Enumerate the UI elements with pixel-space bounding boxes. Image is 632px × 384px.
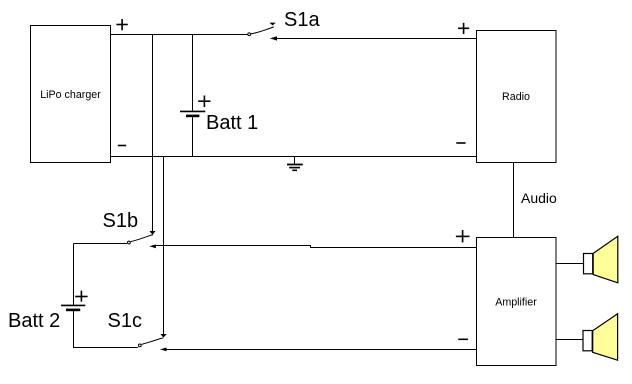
Batt 2 positive plate <box>61 304 85 306</box>
plus label (Batt 2 +) <box>75 291 87 302</box>
connector arrow into radio + wire (points left) <box>270 36 277 40</box>
wire: bottom bus LiPo - to Radio - <box>111 156 477 158</box>
S1c pivot contact circle <box>138 344 141 347</box>
Batt 1 positive plate <box>180 110 205 112</box>
svg-text:Radio: Radio <box>502 91 530 103</box>
Batt 1 bottom lead <box>192 117 194 157</box>
S1b pivot contact circle <box>127 241 130 244</box>
switch S1b <box>74 210 154 244</box>
wire: Amplifier to speaker LS2 <box>556 339 583 341</box>
Batt 2 bottom lead <box>73 311 75 348</box>
connector arrow into amplifier - wire (points left) <box>160 348 167 352</box>
svg-text:Batt 2: Batt 2 <box>8 310 60 332</box>
S1a blade <box>251 27 274 34</box>
svg-text:Amplifier: Amplifier <box>495 297 537 309</box>
S1a throw contact arrow (points down) <box>270 23 276 26</box>
battery Batt 1 <box>180 35 258 157</box>
plus label (Radio + terminal) <box>458 23 469 34</box>
Batt 2 negative plate <box>66 309 80 312</box>
switch S1a <box>248 9 321 36</box>
S1a pivot contact circle <box>248 33 251 36</box>
plus label (Batt 1 +) <box>198 96 210 108</box>
wire: Audio from Radio to Amplifier <box>513 163 515 238</box>
wire: S1a to Radio + <box>277 38 477 40</box>
wire: LiPo + to switch S1a pivot <box>111 34 248 36</box>
S1b upper contact arrow (points down) <box>149 231 155 235</box>
box Amplifier <box>477 238 557 366</box>
wire: S1c to Amplifier - <box>166 349 476 351</box>
speaker LS1 <box>584 236 618 282</box>
speaker LS2 <box>583 314 618 360</box>
wire: vertical from top wire down to switch S1b (node battery +) <box>152 35 154 232</box>
svg-text:LiPo charger: LiPo charger <box>40 89 101 101</box>
battery Batt 2 <box>8 244 88 349</box>
svg-text:S1c: S1c <box>108 310 142 332</box>
S1c upper contact arrow (points down) <box>160 334 166 338</box>
box Radio <box>477 31 557 163</box>
minus label (Radio - terminal) <box>456 142 465 144</box>
Batt 2 top lead <box>73 244 75 305</box>
svg-text:S1a: S1a <box>284 9 320 31</box>
svg-text:Audio: Audio <box>521 190 557 206</box>
svg-text:Batt 1: Batt 1 <box>206 112 258 134</box>
box LiPo charger <box>31 26 111 163</box>
wire: S1b to Amplifier + <box>156 246 477 248</box>
switch S1c <box>74 310 164 348</box>
minus label (Amplifier - terminal) <box>458 338 468 340</box>
Batt 1 negative plate <box>186 115 199 118</box>
wire: vertical from bottom bus down to switch S1c <box>163 157 165 334</box>
svg-text:S1b: S1b <box>103 210 139 232</box>
plus label (LiPo charger + terminal) <box>116 19 127 30</box>
plus label (Amplifier + terminal) <box>456 230 470 242</box>
S1c blade <box>142 338 164 345</box>
Batt 1 top lead <box>192 35 194 111</box>
wire: Batt 2 - to S1c pivot <box>74 347 138 349</box>
connector arrow into amplifier + wire (points left) <box>149 244 156 248</box>
wire: Amplifier to speaker LS1 <box>556 263 584 265</box>
minus label (LiPo charger - terminal) <box>118 145 126 147</box>
ground <box>287 157 303 171</box>
S1b blade <box>131 235 153 242</box>
wire: Batt 2 + to S1b pivot <box>74 243 128 245</box>
